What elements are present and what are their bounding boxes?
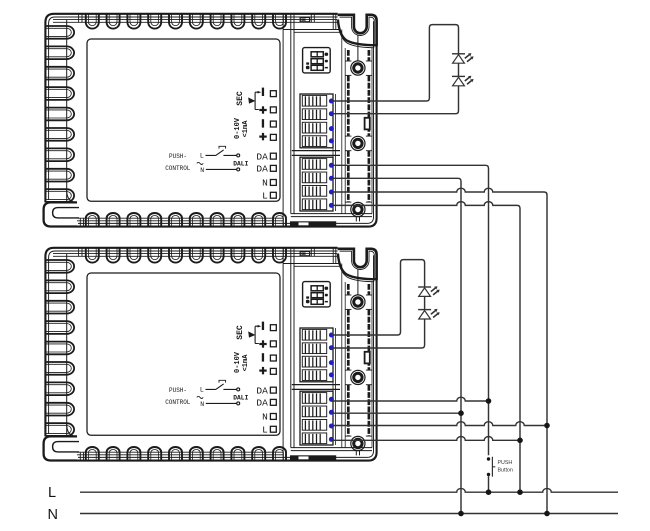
DIP switch S1	[303, 282, 331, 307]
terminal cell 1	[302, 329, 326, 340]
terminal cell 8	[302, 199, 326, 210]
terminal square N	[270, 414, 276, 420]
polarity mark plus (0-10V)	[259, 370, 266, 372]
bottom band line 1	[53, 454, 283, 456]
polarity mark plus (SEC)	[259, 109, 266, 111]
terminal square L	[270, 192, 276, 198]
top band tick a	[78, 248, 80, 256]
terminal divider band bottom	[292, 154, 340, 156]
clamp rail left	[347, 50, 350, 61]
terminal cell 2	[302, 343, 326, 354]
bottom band line 2	[53, 217, 283, 219]
blue contact dot SEC-	[329, 99, 334, 104]
blue contact dot SEC+	[329, 345, 334, 350]
LED D3	[418, 286, 440, 296]
wire: U1 SEC output loop to LED string	[331, 25, 459, 114]
svg-text:<1mA: <1mA	[242, 354, 250, 372]
wire: U1 L to bus V3	[331, 202, 514, 206]
comb right channel line 2	[335, 94, 337, 211]
svg-text:SEC: SEC	[236, 325, 245, 340]
rail channel line left	[344, 48, 346, 214]
terminal cell 1	[302, 95, 326, 106]
blue contact dot N	[329, 424, 334, 429]
screw hole 1	[351, 61, 365, 75]
polarity mark minus (0-10V)	[262, 353, 264, 361]
clamp rail left	[347, 284, 350, 295]
contact circle L	[237, 154, 240, 157]
terminal cell 4	[302, 370, 326, 381]
contact circle N	[237, 402, 240, 405]
svg-text:CONTROL: CONTROL	[165, 399, 191, 406]
terminal block group 2	[300, 391, 333, 445]
SEC bracket	[255, 326, 259, 343]
polarity mark minus (SEC)	[262, 322, 264, 330]
inner label panel	[87, 39, 280, 201]
driver inner housing border	[49, 251, 374, 457]
top ventilation slots	[86, 14, 99, 28]
top band line 2	[53, 21, 337, 23]
terminal cell 2	[302, 109, 326, 120]
svg-text:PUSH-: PUSH-	[169, 387, 187, 394]
DIP slider 1	[311, 52, 323, 57]
driver unit U1 group	[44, 14, 377, 227]
comb right channel line 2	[335, 328, 337, 445]
panel bottom line 1	[291, 213, 372, 215]
panel wall inner	[293, 14, 295, 213]
clamp rail right	[368, 50, 371, 61]
side latch	[365, 352, 370, 364]
mounting tab swoosh	[338, 20, 377, 46]
SEC arrow	[248, 97, 255, 103]
terminal divider band top	[292, 384, 340, 386]
clamp rail right	[368, 284, 371, 295]
terminal square SEC+	[270, 107, 276, 113]
bottom-left mounting foot	[44, 202, 77, 226]
driver unit U2	[44, 248, 377, 461]
blue contact dot 0-10V-	[329, 360, 334, 365]
terminal cell 8	[302, 433, 326, 444]
bottom band line 1	[53, 220, 283, 222]
side latch	[365, 118, 370, 130]
svg-text:Button: Button	[498, 467, 513, 473]
contact circle L	[237, 388, 240, 391]
top band clip	[300, 251, 309, 255]
svg-text:<1mA: <1mA	[242, 120, 250, 138]
blue contact dot DA1	[329, 397, 334, 402]
svg-text:0-10V: 0-10V	[234, 117, 242, 139]
screw stem bottom 1	[355, 217, 357, 222]
terminal cell 7	[302, 420, 326, 431]
svg-text:L: L	[200, 153, 204, 160]
bottom ventilation slots	[86, 213, 99, 226]
blue contact dot DA2	[329, 410, 334, 415]
svg-text:DALI: DALI	[233, 394, 248, 401]
panel top line	[283, 263, 340, 265]
terminal block group 1	[300, 94, 333, 148]
terminal square DA2	[270, 399, 276, 405]
wire: U2 SEC output loop to LED string	[331, 260, 425, 348]
blue contact dot N	[329, 190, 334, 195]
junction V3 / L line	[517, 489, 523, 495]
DIP switch S1	[303, 48, 331, 73]
svg-text:N: N	[262, 412, 268, 423]
panel wall outer	[290, 248, 292, 447]
driver unit U2 group	[44, 248, 377, 461]
DIP slider 3	[311, 299, 323, 304]
terminal square 0-10V-	[270, 121, 276, 127]
terminal block group 2	[300, 157, 333, 211]
svg-text:L: L	[48, 485, 56, 501]
bottom band tick 2	[83, 452, 85, 460]
terminal divider band top	[292, 150, 340, 152]
wire: U2 DA2 to bus V1	[331, 412, 461, 414]
junction U2-L / V3	[517, 438, 523, 444]
mains line L	[80, 488, 618, 492]
LED D2	[452, 76, 474, 86]
bottom band line 2	[53, 451, 283, 453]
svg-text:DALI: DALI	[233, 160, 248, 167]
svg-text:L: L	[200, 387, 204, 394]
DIP markings	[325, 287, 329, 290]
push-control switch symbol	[206, 150, 237, 156]
rail channel line left	[344, 282, 346, 448]
screw hole 3	[351, 202, 365, 216]
top band tick 3	[332, 14, 334, 29]
top band tick 1	[310, 248, 312, 256]
panel bottom line 2	[291, 216, 372, 218]
label tilde	[197, 162, 203, 164]
wire: U2 L to bus V3	[331, 437, 520, 441]
bottom ventilation slots	[86, 447, 99, 460]
terminal cell 3	[302, 122, 326, 133]
terminal square SEC+	[270, 341, 276, 347]
driver outer housing border	[45, 248, 376, 461]
svg-text:PUSH: PUSH	[498, 460, 513, 466]
top band tick 1	[310, 14, 312, 22]
top-right mounting tab	[338, 15, 377, 46]
panel divider line	[282, 15, 284, 227]
svg-text:0-10V: 0-10V	[234, 351, 242, 373]
rail connector ticks	[345, 294, 351, 296]
terminal square 0-10V+	[270, 368, 276, 374]
top band tick 4	[335, 248, 337, 263]
comb right channel line 1	[332, 328, 334, 445]
bottom band tick 2	[83, 218, 85, 226]
terminal square 0-10V+	[270, 134, 276, 140]
junction V1 / N line	[458, 511, 464, 517]
top band tick 2	[313, 14, 315, 22]
polarity mark minus (0-10V)	[262, 119, 264, 127]
top ventilation slots	[86, 248, 99, 262]
panel mid channel line	[341, 264, 343, 448]
junction V4 / N line	[544, 511, 550, 517]
left band line	[66, 254, 68, 436]
screw hole 2	[351, 370, 365, 384]
terminal square L	[270, 426, 276, 432]
panel wall inner	[293, 248, 295, 447]
terminal cell 7	[302, 186, 326, 197]
blue contact dot L	[329, 437, 334, 442]
svg-text:DA: DA	[256, 385, 268, 396]
panel top line	[283, 29, 340, 31]
wire N to contact	[206, 402, 237, 404]
push-control switch symbol	[206, 384, 237, 390]
junction U2-DA1 / V2	[486, 398, 492, 404]
junction U2-DA2 / V1	[458, 410, 464, 416]
rail channel line right	[371, 48, 373, 214]
comb right channel line 1	[332, 94, 334, 211]
top band clip	[300, 17, 309, 21]
inner label panel	[87, 273, 280, 435]
push button actuator	[492, 457, 495, 477]
terminal cell 4	[302, 136, 326, 147]
wire: U2 DA1 to bus V2	[331, 397, 489, 401]
mains line N	[80, 513, 618, 515]
top band tick 3	[332, 248, 334, 263]
top band tick a	[78, 14, 80, 22]
top band tick b	[81, 14, 83, 22]
SEC arrow	[248, 331, 255, 337]
panel top line 2	[294, 31, 340, 33]
terminal square N	[270, 180, 276, 186]
DIP markings	[325, 53, 329, 56]
wire: U1 DA2 to bus V1	[331, 178, 461, 513]
LED D1	[452, 53, 474, 63]
panel bottom line 1	[291, 447, 372, 449]
push button contact bottom	[487, 473, 490, 476]
bottom band bar	[290, 455, 336, 460]
driver outer housing border	[45, 14, 376, 227]
svg-text:SEC: SEC	[236, 91, 245, 106]
panel wall outer	[290, 14, 292, 213]
junction push button / L line	[486, 489, 492, 495]
top-right mounting tab	[338, 249, 377, 280]
wire: U2 N to bus V4	[331, 422, 547, 426]
panel bottom line 2	[291, 450, 372, 452]
blue contact dot DA1	[329, 163, 334, 168]
top band line 2	[53, 255, 337, 257]
svg-text:DA: DA	[256, 151, 268, 162]
DIP slider 2	[311, 293, 323, 298]
terminal cell 6	[302, 406, 326, 417]
terminal cell 6	[302, 172, 326, 183]
push button contact top	[487, 457, 490, 460]
bottom-left mounting foot	[44, 436, 77, 460]
left side tabs	[46, 260, 74, 273]
terminal square DA2	[270, 165, 276, 171]
panel divider line	[282, 249, 284, 461]
left band line	[66, 20, 68, 202]
wire: U1 DA1 to bus V2	[331, 165, 489, 455]
svg-text:N: N	[200, 167, 204, 174]
screw stem bottom 2	[359, 217, 361, 222]
rail connector ticks	[345, 60, 351, 62]
top band line 1	[53, 19, 337, 21]
polarity mark minus (SEC)	[262, 88, 264, 96]
terminal cell 5	[302, 393, 326, 404]
bottom band bar	[290, 221, 336, 226]
svg-text:DA: DA	[256, 398, 268, 409]
svg-text:DA: DA	[256, 164, 268, 175]
terminal square DA1	[270, 387, 276, 393]
terminal block group 1	[300, 328, 333, 382]
contact circle N	[237, 168, 240, 171]
push button wire segment	[488, 476, 490, 492]
DIP slider 2	[311, 59, 323, 64]
top band tick 2	[313, 248, 315, 256]
svg-text:N: N	[48, 507, 58, 523]
terminal cell 3	[302, 356, 326, 367]
panel mid channel line	[341, 30, 343, 214]
wire: U1 N to bus V4	[331, 188, 541, 192]
svg-text:CONTROL: CONTROL	[165, 165, 191, 172]
svg-text:PUSH-: PUSH-	[169, 153, 187, 160]
screw stem top	[357, 36, 359, 61]
blue contact dot 0-10V+	[329, 372, 334, 377]
terminal square DA1	[270, 153, 276, 159]
bottom band tick 1	[79, 218, 81, 226]
terminal square 0-10V-	[270, 355, 276, 361]
blue contact dot 0-10V+	[329, 138, 334, 143]
svg-text:L: L	[262, 191, 268, 202]
polarity mark plus (SEC)	[259, 343, 266, 345]
screw stem bottom 2	[359, 451, 361, 456]
svg-text:L: L	[262, 425, 268, 436]
label tilde	[197, 396, 203, 398]
LED D4	[418, 309, 440, 319]
screw hole 3	[351, 436, 365, 450]
junction U2-N / V4	[544, 423, 550, 429]
screw hole 2	[351, 136, 365, 150]
DIP slider 1	[311, 286, 323, 291]
wire N to contact	[206, 168, 237, 170]
screw stem bottom 1	[355, 451, 357, 456]
screw stem top	[357, 270, 359, 295]
top band line 1	[53, 253, 337, 255]
screw hole 1	[351, 295, 365, 309]
top band tick b	[81, 248, 83, 256]
terminal divider band bottom	[292, 388, 340, 390]
svg-text:N: N	[200, 401, 204, 408]
mounting tab swoosh	[338, 254, 377, 280]
blue contact dot SEC+	[329, 111, 334, 116]
polarity mark plus (0-10V)	[259, 136, 266, 138]
left side tabs	[46, 26, 74, 39]
terminal cell 5	[302, 159, 326, 170]
SEC bracket	[255, 92, 259, 109]
terminal square SEC-	[270, 325, 276, 331]
rail channel line right	[371, 282, 373, 448]
svg-text:N: N	[262, 178, 268, 189]
blue contact dot L	[329, 203, 334, 208]
blue contact dot SEC-	[329, 333, 334, 338]
blue contact dot DA2	[329, 176, 334, 181]
panel top line 2	[294, 265, 340, 267]
blue contact dot 0-10V-	[329, 126, 334, 131]
bottom band tick 1	[79, 452, 81, 460]
top band tick 4	[335, 14, 337, 29]
DIP slider 3	[311, 65, 323, 70]
driver inner housing border	[49, 17, 374, 223]
terminal square SEC-	[270, 91, 276, 97]
